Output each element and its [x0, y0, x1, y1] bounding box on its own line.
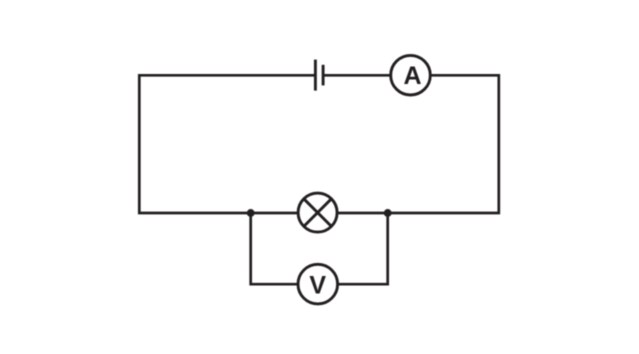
ammeter A1	[391, 55, 431, 95]
wire main loop (top-left around to battery terminals)	[139, 75, 499, 213]
svg-text:A: A	[403, 62, 421, 90]
battery B1 short plate	[322, 65, 325, 86]
svg-text:V: V	[309, 271, 326, 299]
lamp L1	[298, 193, 337, 232]
battery B1 long plate	[314, 60, 317, 91]
node junction right	[384, 209, 392, 217]
voltmeter V1	[298, 264, 338, 304]
node junction left	[247, 209, 255, 217]
wire voltmeter branch	[251, 213, 388, 284]
